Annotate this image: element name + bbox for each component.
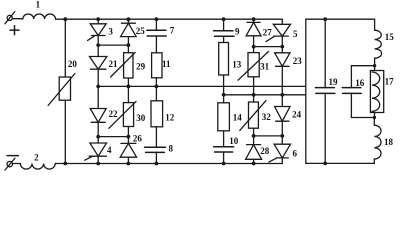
wire left vertical upper bbox=[64, 19, 66, 77]
node cap19 bottom bbox=[323, 162, 327, 166]
svg-text:5: 5 bbox=[293, 29, 298, 39]
wire from cap16 bottom bbox=[351, 117, 374, 119]
inductor 2 bbox=[20, 164, 55, 170]
node B3 bbox=[126, 135, 130, 139]
svg-text:17: 17 bbox=[385, 77, 395, 87]
diode 25 bbox=[127, 19, 129, 23]
node E top bbox=[252, 17, 256, 21]
svg-text:10: 10 bbox=[229, 136, 239, 146]
capacitor 10 bbox=[223, 131, 225, 147]
node D top bbox=[222, 17, 226, 21]
wire bbox=[253, 36, 255, 53]
varistor 31 bbox=[248, 53, 259, 77]
capacitor 19 bbox=[324, 19, 326, 87]
svg-text:26: 26 bbox=[133, 134, 143, 144]
diode 4 bbox=[85, 143, 107, 160]
svg-text:15: 15 bbox=[385, 32, 395, 42]
node F1 bbox=[280, 45, 284, 49]
resistor 11 bbox=[152, 53, 162, 78]
svg-text:13: 13 bbox=[232, 59, 242, 69]
node E4 bbox=[252, 162, 256, 166]
node C4 bbox=[155, 162, 159, 166]
wire rail EF bottom bbox=[254, 135, 283, 137]
resistor 12 bbox=[155, 86, 157, 100]
svg-text:21: 21 bbox=[109, 59, 119, 69]
varistor 20 bbox=[59, 77, 70, 100]
node C top bbox=[155, 17, 159, 21]
node A1 bbox=[96, 43, 100, 47]
diode 28 bbox=[246, 145, 262, 160]
svg-text:7: 7 bbox=[170, 26, 175, 36]
svg-text:11: 11 bbox=[162, 59, 171, 69]
svg-text:19: 19 bbox=[329, 77, 339, 87]
wire bbox=[97, 19, 99, 24]
output loop left vertical bbox=[305, 19, 307, 163]
wire rail AB bottom bbox=[98, 136, 128, 138]
varistor 32 bbox=[249, 102, 259, 128]
node A2 bbox=[96, 85, 100, 89]
diode 21 bbox=[90, 57, 107, 70]
node B1 bbox=[126, 43, 130, 47]
svg-text:29: 29 bbox=[136, 62, 146, 72]
node colB top bbox=[126, 17, 130, 21]
wire bbox=[253, 77, 255, 102]
node A4 bbox=[96, 162, 100, 166]
svg-text:14: 14 bbox=[233, 112, 243, 122]
diode 24 bbox=[275, 107, 290, 122]
wire bbox=[253, 128, 255, 144]
wire bottom rail bbox=[55, 163, 282, 165]
diode 23 bbox=[275, 53, 290, 67]
svg-text:24: 24 bbox=[292, 110, 302, 120]
svg-text:23: 23 bbox=[293, 56, 303, 66]
node input bottom bbox=[63, 162, 67, 166]
wire bbox=[97, 36, 99, 57]
inductor 15 bbox=[374, 19, 376, 30]
wire bbox=[127, 37, 129, 53]
node E1 bbox=[252, 45, 256, 49]
wire bbox=[127, 157, 129, 163]
diode 22 bbox=[90, 109, 106, 123]
plus sign bbox=[10, 26, 19, 35]
wire rail AB top bbox=[98, 44, 128, 46]
svg-text:4: 4 bbox=[107, 145, 112, 155]
wire bbox=[281, 36, 283, 53]
svg-text:22: 22 bbox=[109, 109, 119, 119]
wire to cap16 bbox=[351, 65, 374, 67]
node 16 bottom bbox=[373, 116, 376, 119]
wire rail B mid bbox=[224, 94, 306, 96]
node E3 bbox=[252, 134, 256, 138]
capacitor 16 bbox=[350, 66, 352, 88]
diode 3 bbox=[88, 24, 107, 41]
wire bbox=[127, 78, 129, 103]
wire bbox=[127, 127, 129, 144]
wire bbox=[223, 75, 225, 103]
terminal plus input bbox=[7, 15, 12, 20]
node cap19 top bbox=[323, 17, 327, 21]
wire rail EF top bbox=[254, 46, 283, 48]
minus sign bbox=[7, 155, 18, 157]
svg-text:31: 31 bbox=[260, 62, 270, 72]
svg-text:6: 6 bbox=[293, 149, 298, 159]
wire bbox=[97, 86, 99, 108]
node E2 bbox=[252, 93, 256, 97]
diode 6 bbox=[269, 144, 291, 162]
svg-text:20: 20 bbox=[68, 59, 78, 69]
node D2 bbox=[222, 93, 226, 97]
svg-text:25: 25 bbox=[136, 26, 146, 36]
varistor 29 bbox=[124, 53, 133, 78]
inductor 1 bbox=[23, 14, 56, 19]
diode 27 bbox=[253, 19, 255, 22]
wire bbox=[12, 18, 23, 20]
wire bbox=[281, 66, 283, 106]
wire bbox=[97, 122, 99, 143]
diode 26 bbox=[120, 143, 136, 157]
node D4 bbox=[222, 162, 226, 166]
diode 5 bbox=[266, 24, 291, 41]
svg-text:3: 3 bbox=[108, 27, 113, 37]
svg-text:9: 9 bbox=[235, 27, 240, 37]
svg-text:8: 8 bbox=[169, 143, 174, 153]
terminal minus input bbox=[7, 161, 12, 166]
wire bbox=[13, 163, 21, 165]
wire bbox=[97, 156, 99, 163]
capacitor 8 bbox=[155, 127, 157, 147]
node F3 bbox=[280, 134, 284, 138]
node B4 bbox=[126, 162, 130, 166]
resistor 14 bbox=[218, 103, 230, 131]
svg-text:2: 2 bbox=[34, 152, 39, 162]
wire rail A mid bbox=[98, 85, 306, 87]
resistor 13 bbox=[219, 43, 229, 76]
node 16 top bbox=[373, 64, 376, 67]
capacitor 7 bbox=[155, 19, 157, 30]
wire colF top bbox=[281, 19, 283, 24]
wire bbox=[97, 69, 99, 86]
node B2 bbox=[126, 85, 130, 89]
node F2 bbox=[280, 93, 284, 97]
svg-text:16: 16 bbox=[355, 78, 365, 88]
wire bbox=[281, 158, 283, 164]
svg-text:12: 12 bbox=[165, 113, 175, 123]
wire top rail bbox=[56, 18, 283, 20]
node colA top bbox=[96, 17, 100, 21]
svg-text:27: 27 bbox=[263, 27, 273, 37]
svg-text:18: 18 bbox=[384, 137, 394, 147]
wire bbox=[253, 159, 255, 163]
output loop top wire bbox=[306, 18, 375, 20]
wire left vertical lower bbox=[64, 100, 66, 163]
node input top bbox=[63, 17, 67, 21]
svg-text:28: 28 bbox=[260, 146, 270, 156]
capacitor 9 bbox=[223, 19, 225, 31]
transformer winding 17 bbox=[370, 71, 383, 113]
svg-text:1: 1 bbox=[36, 0, 41, 9]
output loop bottom wire bbox=[306, 162, 375, 164]
wire bbox=[155, 78, 157, 87]
node A3 bbox=[96, 135, 100, 139]
svg-text:32: 32 bbox=[262, 112, 272, 122]
inductor 18 bbox=[373, 118, 375, 126]
varistor 30 bbox=[123, 103, 133, 127]
svg-text:30: 30 bbox=[136, 113, 146, 123]
node C2 bbox=[155, 85, 159, 89]
wire bbox=[281, 121, 283, 144]
